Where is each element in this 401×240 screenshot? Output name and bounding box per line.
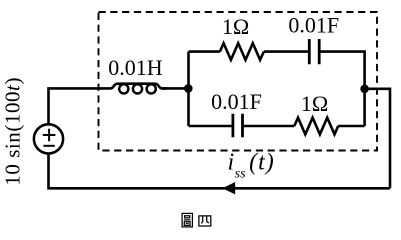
wire: inductor to node A [162,87,189,90]
svg-text:0.01F: 0.01F [211,89,262,114]
node A (left junction dot) [184,84,193,93]
resistor R1 1ohm (top) [220,43,264,60]
voltage source VS circle [34,124,63,153]
wire: source top lead up and right to inductor [49,88,107,124]
inductor L 0.01H [106,84,167,89]
resistor R2 1ohm (bottom) [294,118,338,135]
svg-text:0.01F: 0.01F [288,12,339,37]
wire: top branch right lead [319,52,364,126]
svg-text:10 sin(100t): 10 sin(100t) [0,77,24,186]
wire: bottom branch right lead [338,125,364,128]
plus sign of source [43,129,56,142]
caption glyph SI (four) [199,216,211,226]
wire: bottom branch left lead [189,125,233,128]
svg-text:1Ω: 1Ω [301,91,328,116]
wire: node B to outer right vertical [365,89,390,189]
wire: left vertical branch riser [187,52,190,126]
wire: top branch left lead [189,50,220,53]
wire: bottom return to source [49,154,391,189]
capacitor C1 0.01F (top) [309,39,319,64]
wire: top branch middle lead [264,50,310,53]
capacitor C2 0.01F (bottom) [233,114,243,138]
current arrow head (points left) [222,182,235,194]
svg-text:1Ω: 1Ω [222,14,249,39]
minus sign of source [43,145,54,147]
svg-text:0.01H: 0.01H [108,55,163,80]
node B (right junction dot) [360,85,369,94]
caption glyph TU (figure) [182,213,192,227]
wire: bottom branch middle lead [243,125,295,128]
dashed network box [99,12,378,151]
